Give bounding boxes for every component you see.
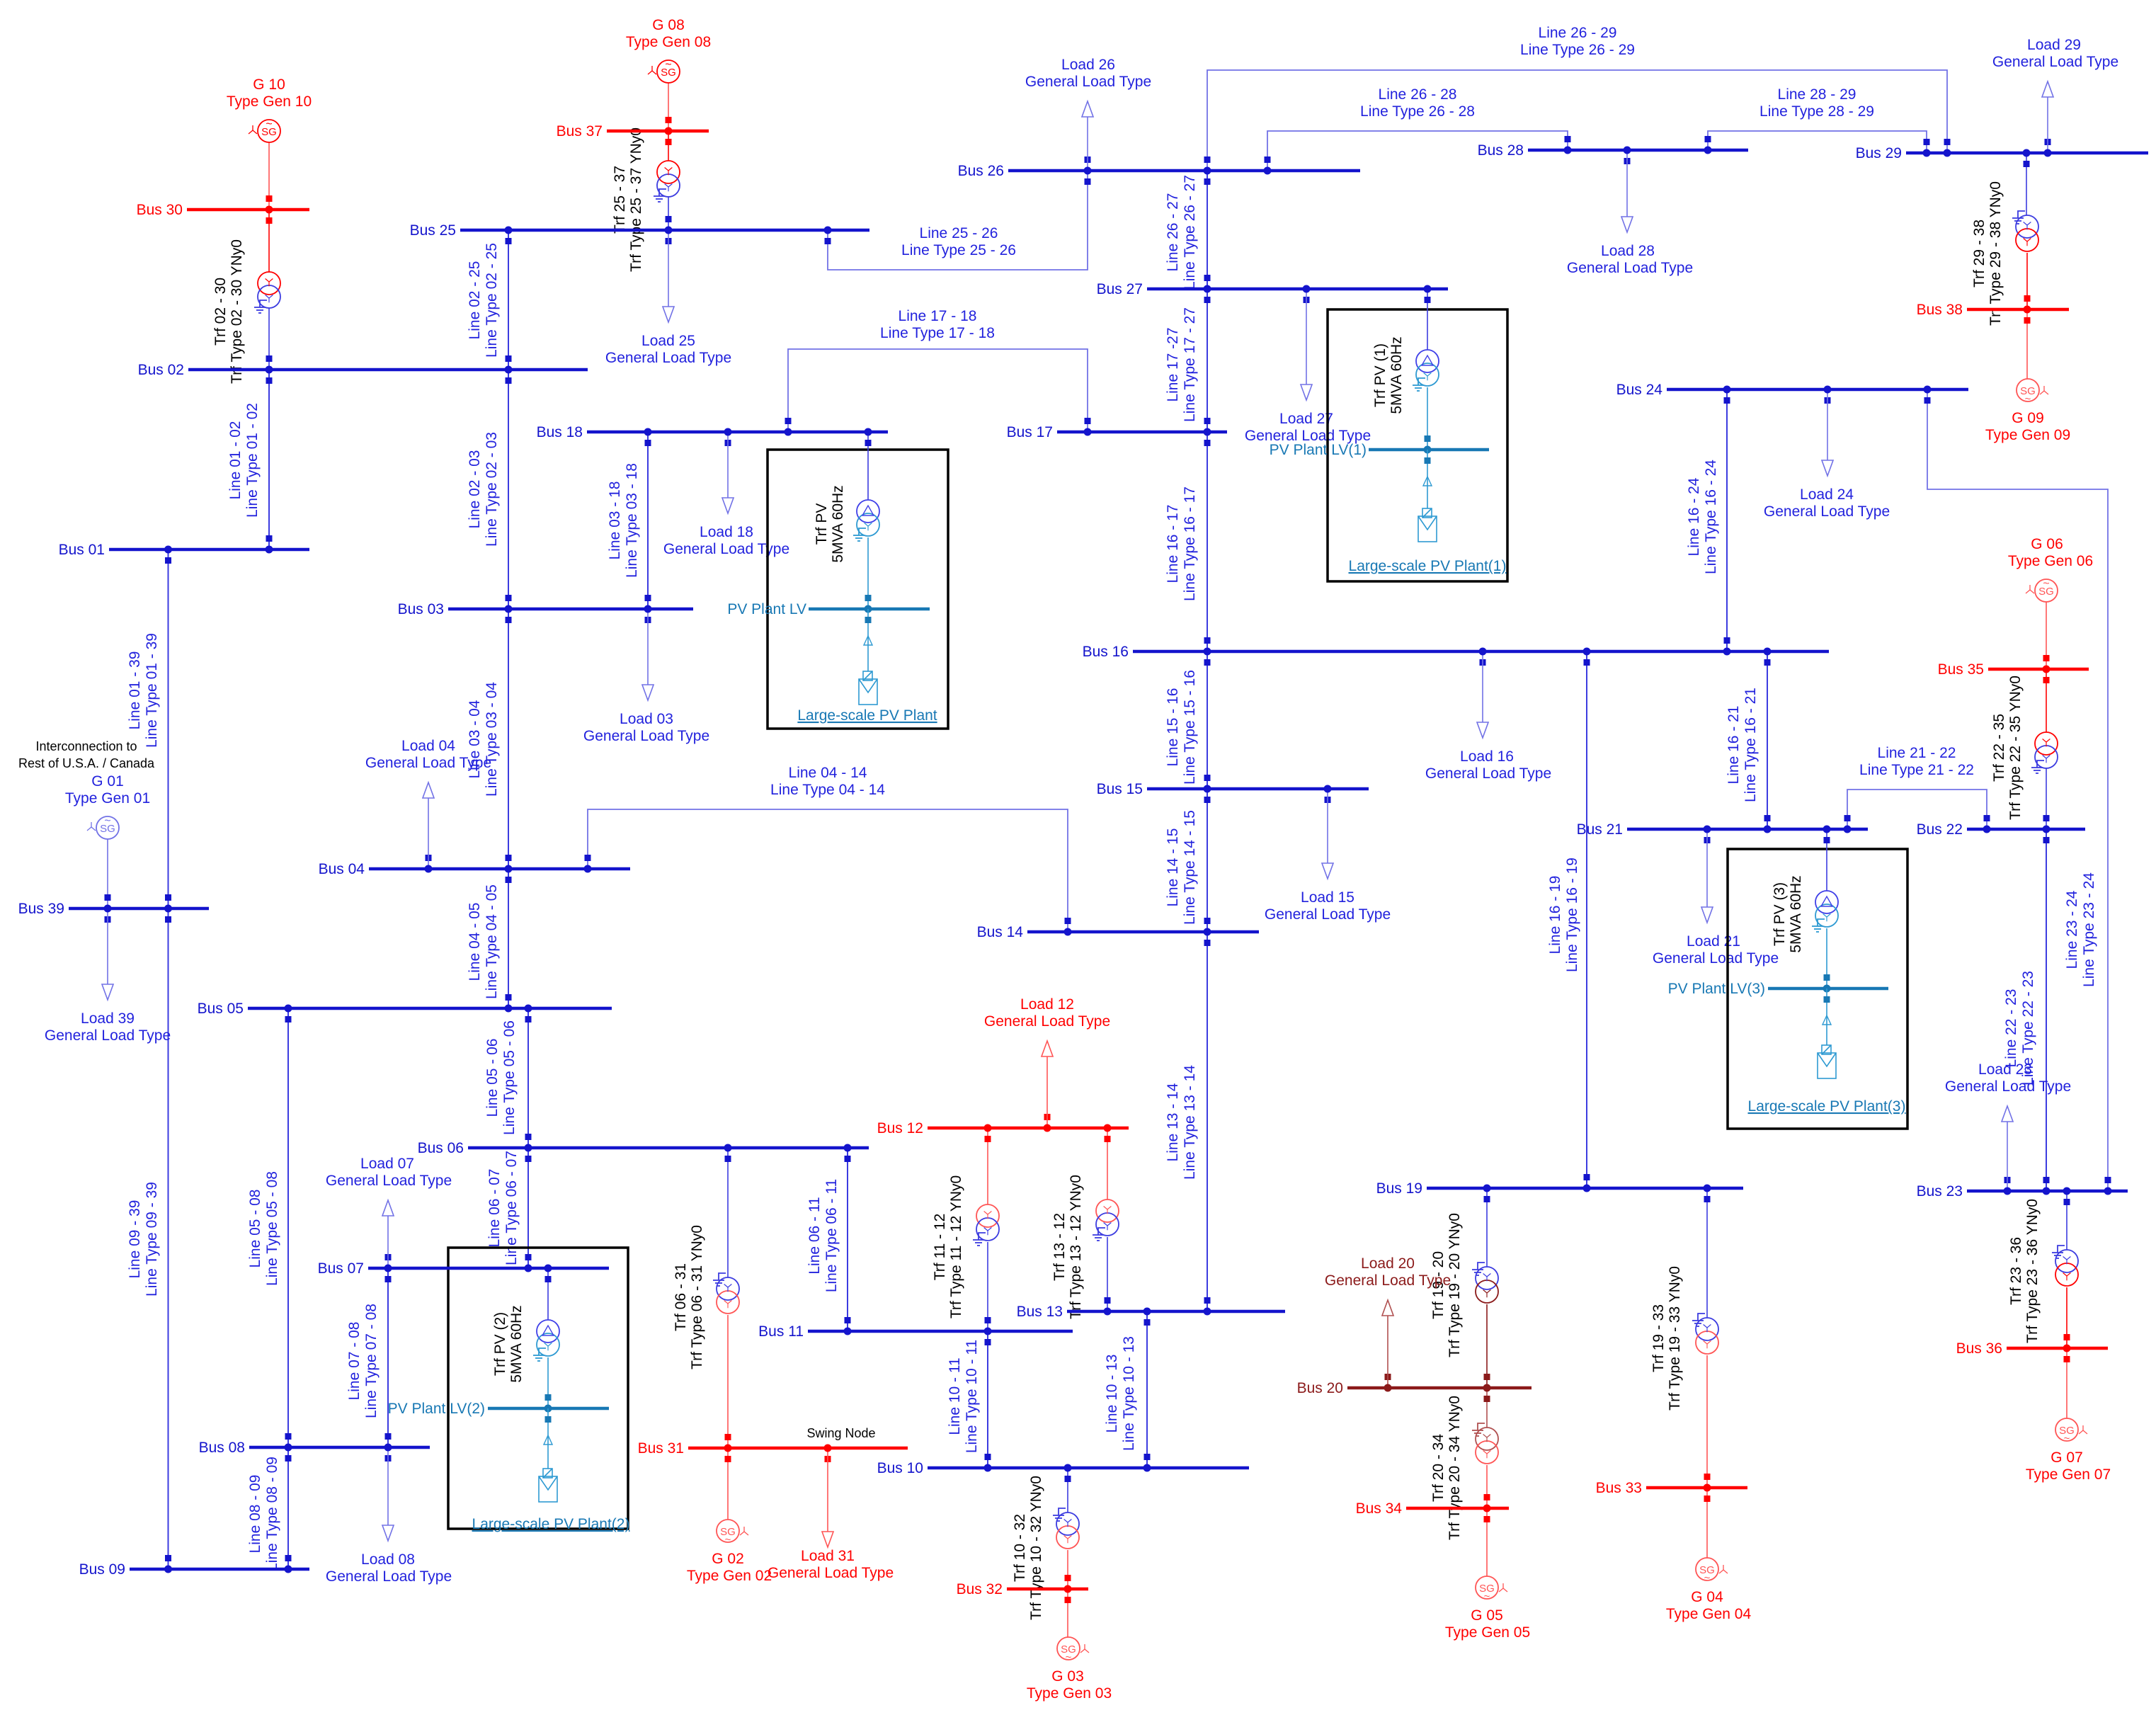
svg-text:Load 21: Load 21 [1687,933,1740,950]
generator G 03 [1027,1637,1112,1702]
load Load 18 [663,435,789,557]
load Load 16 [1425,654,1551,782]
svg-text:Bus 07: Bus 07 [318,1260,364,1277]
transformer Trf PV (3) [1815,891,1838,913]
transformer Trf 02 - 30 [212,239,280,384]
svg-text:Line Type 03 - 18: Line Type 03 - 18 [624,463,640,578]
wire Line 15 - 16 [1165,651,1211,789]
svg-text:Trf Type 29 - 38 YNy0: Trf Type 29 - 38 YNy0 [1987,181,2004,326]
svg-text:Line Type 16 - 21: Line Type 16 - 21 [1743,688,1759,802]
transformer Trf PV (2) [537,1320,559,1343]
wire Line 26 - 27 [1165,171,1211,290]
svg-text:~: ~ [2025,393,2031,405]
svg-text:Line 02 - 03: Line 02 - 03 [467,450,483,529]
wire Trf 23-36 to Bus 36 [2066,1287,2067,1348]
transformer Trf 19 - 33 [1650,1266,1718,1411]
svg-text:Line 16 - 17: Line 16 - 17 [1165,505,1181,583]
svg-text:Trf 10 - 32: Trf 10 - 32 [1012,1514,1028,1582]
svg-text:Line Type 26 - 27: Line Type 26 - 27 [1182,175,1198,290]
svg-text:G 07: G 07 [2051,1449,2083,1466]
svg-text:~: ~ [1066,1651,1072,1663]
bus Bus 36 [1956,1340,2108,1357]
wire Line 14 - 15 [1165,789,1211,932]
svg-text:Bus 39: Bus 39 [18,901,64,917]
wire Bus 23 to Trf 23-36 [2066,1191,2067,1250]
generator G 05 [1445,1576,1530,1641]
svg-text:General Load Type: General Load Type [1265,906,1391,923]
wire Line 23 - 24 [1924,389,2111,1191]
svg-text:Bus 06: Bus 06 [418,1140,464,1156]
svg-text:Line Type 28 - 29: Line Type 28 - 29 [1759,103,1874,120]
load Load 23 [1945,1061,2071,1188]
wire Line 16 - 17 [1165,432,1211,651]
PV plant box (3) [1728,849,1907,1129]
wire Line 26 - 28 [1265,86,1571,171]
svg-text:Bus 26: Bus 26 [958,163,1004,179]
svg-text:PV Plant LV(3): PV Plant LV(3) [1668,981,1765,997]
svg-text:G 02: G 02 [712,1551,744,1567]
bus Bus 35 [1938,661,2089,678]
svg-text:PV Plant LV(2): PV Plant LV(2) [388,1401,485,1417]
svg-text:Line 26 - 29: Line 26 - 29 [1539,25,1617,41]
svg-text:Line 22 - 23: Line 22 - 23 [2003,989,2019,1068]
svg-text:Load 31: Load 31 [801,1548,855,1564]
svg-text:Bus 28: Bus 28 [1478,142,1524,159]
svg-text:Bus 35: Bus 35 [1938,661,1984,678]
svg-text:General Load Type: General Load Type [365,755,491,771]
svg-text:Load 18: Load 18 [700,524,753,540]
generator G 01 [65,773,150,839]
load Load 08 [326,1450,452,1585]
bus PV Plant LV(1) [1369,448,1489,452]
load Load 03 [583,612,709,744]
svg-text:Line 05 - 08: Line 05 - 08 [247,1190,263,1268]
wire Trf 19-20 to Bus 20 [1486,1304,1488,1388]
transformer Trf 23 - 36 [2008,1199,2078,1343]
wire Bus 20 to Trf 20-34 [1486,1388,1488,1428]
wire Bus 10 to Trf 10-32 [1067,1468,1068,1512]
svg-text:Line Type 15 - 16: Line Type 15 - 16 [1182,670,1198,785]
svg-text:Line Type 09 - 39: Line Type 09 - 39 [144,1182,160,1297]
transformer Trf 10 - 32 [1012,1476,1079,1620]
transformer Trf 06 - 31 [673,1225,739,1369]
svg-text:Type Gen 04: Type Gen 04 [1666,1606,1752,1622]
load Load 07 [326,1156,452,1265]
svg-text:Type Gen 09: Type Gen 09 [1985,427,2070,443]
svg-text:Load 20: Load 20 [1361,1255,1415,1272]
wire Line 05 - 06 [484,1008,532,1148]
svg-text:Bus 13: Bus 13 [1017,1304,1063,1320]
svg-text:Trf Type 20 - 34 YNy0: Trf Type 20 - 34 YNy0 [1447,1396,1463,1540]
transformer Trf PV [857,500,879,523]
svg-text:Bus 23: Bus 23 [1917,1183,1963,1200]
svg-text:Line 04 - 14: Line 04 - 14 [789,765,867,781]
svg-text:General Load Type: General Load Type [1567,260,1693,276]
svg-text:Bus 36: Bus 36 [1956,1340,2002,1357]
svg-text:Line 07 - 08: Line 07 - 08 [346,1322,363,1401]
PV array [859,671,877,705]
svg-text:Line Type 02 - 25: Line Type 02 - 25 [484,243,500,358]
bus Bus 31 [638,1440,908,1457]
svg-text:PV Plant LV(1): PV Plant LV(1) [1270,442,1367,458]
svg-text:Line 14 - 15: Line 14 - 15 [1165,828,1181,907]
wire Bus 37 to Trf 25-37 [668,131,669,161]
svg-text:Line 04 - 05: Line 04 - 05 [467,903,483,981]
bus Bus 08 [199,1440,430,1456]
wire G08 to Bus 37 [668,83,669,131]
bus Bus 20 [1297,1380,1532,1396]
svg-text:Bus 34: Bus 34 [1356,1500,1403,1517]
wire Line 03 - 04 [467,609,512,869]
bus Bus 12 [877,1120,1129,1136]
svg-text:General Load Type: General Load Type [768,1565,894,1581]
svg-text:Large-scale PV Plant(3): Large-scale PV Plant(3) [1748,1098,1906,1115]
bus Bus 30 [137,202,309,218]
svg-text:Load 28: Load 28 [1601,243,1655,259]
svg-text:General Load Type: General Load Type [1764,503,1890,520]
transformer Trf 29 - 38 [1971,181,2038,326]
wire Line 09 - 39 [127,908,171,1569]
svg-text:Bus 37: Bus 37 [557,123,603,139]
svg-text:Trf Type 02 - 30 YNy0: Trf Type 02 - 30 YNy0 [229,239,245,384]
wire Line 13 - 14 [1165,932,1211,1311]
svg-text:Load 25: Load 25 [641,333,695,349]
svg-text:Trf Type 11 - 12 YNy0: Trf Type 11 - 12 YNy0 [948,1175,964,1318]
bus Bus 25 [410,222,869,239]
svg-text:Large-scale PV Plant(1): Large-scale PV Plant(1) [1349,558,1507,574]
svg-text:Bus 31: Bus 31 [638,1440,684,1457]
svg-text:Rest of U.S.A. / Canada: Rest of U.S.A. / Canada [18,756,155,770]
svg-text:Line 26 - 28: Line 26 - 28 [1379,86,1457,103]
svg-text:Line 15 - 16: Line 15 - 16 [1165,688,1181,767]
svg-text:~: ~ [1704,1572,1711,1584]
svg-text:Bus 03: Bus 03 [398,601,444,617]
svg-text:~: ~ [266,118,272,130]
svg-text:Load 27: Load 27 [1279,411,1333,427]
svg-text:Bus 14: Bus 14 [977,924,1024,940]
svg-text:Line Type 13 - 14: Line Type 13 - 14 [1182,1065,1198,1180]
svg-text:5MVA 60Hz: 5MVA 60Hz [1788,875,1804,952]
svg-text:General Load Type: General Load Type [1425,765,1551,782]
svg-text:Line 06 - 07: Line 06 - 07 [486,1169,503,1248]
bus Bus 37 [557,123,709,139]
wire Bus 34 to G05 [1486,1508,1488,1576]
PV plant box (1) [1328,309,1507,581]
svg-text:~: ~ [2064,1432,2070,1445]
wire Line 01 - 02 [227,370,273,549]
svg-text:Line Type 02 - 03: Line Type 02 - 03 [484,432,500,547]
PV plant box [768,450,948,729]
svg-text:Trf 23 - 36: Trf 23 - 36 [2008,1237,2024,1305]
load Load 04 [365,738,491,866]
svg-text:General Load Type: General Load Type [984,1013,1110,1030]
wire Line 16 - 21 [1726,651,1771,829]
svg-text:Type Gen 02: Type Gen 02 [687,1568,772,1584]
wire Trf PV (1) to LV bus [1427,387,1428,450]
wire Line 21 - 22 [1844,745,1990,829]
svg-text:General Load Type: General Load Type [1025,74,1151,90]
bus Bus 38 [1917,302,2069,318]
svg-text:G 06: G 06 [2031,536,2063,552]
load Load 15 [1265,792,1391,923]
wire Trf 11-12 to Bus 11 [987,1242,988,1331]
svg-text:Line Type 21 - 22: Line Type 21 - 22 [1859,762,1974,778]
svg-text:Bus 11: Bus 11 [758,1323,804,1340]
svg-text:Trf 06 - 31: Trf 06 - 31 [673,1263,689,1331]
load Load 28 [1567,153,1693,276]
svg-text:Line 10 - 13: Line 10 - 13 [1104,1355,1120,1433]
svg-text:Trf 13 - 12: Trf 13 - 12 [1051,1213,1068,1281]
wire bus to Trf PV (2) [547,1268,549,1320]
svg-text:Line Type 03 - 04: Line Type 03 - 04 [484,682,500,797]
svg-text:General Load Type: General Load Type [1945,1078,2071,1095]
PV array (1) [1418,508,1437,542]
wire Trf 10-32 to Bus 32 [1067,1550,1068,1589]
wire G01 to Bus 39 [107,839,108,908]
svg-text:Type Gen 07: Type Gen 07 [2026,1466,2111,1483]
wire bus to Trf PV (3) [1826,829,1827,891]
svg-text:Load 07: Load 07 [360,1156,414,1172]
wire Trf 20-34 to Bus 34 [1486,1465,1488,1508]
svg-text:Bus 17: Bus 17 [1007,424,1053,440]
svg-text:Bus 05: Bus 05 [198,1001,244,1017]
wire Trf PV to LV bus [867,537,869,609]
svg-text:Bus 21: Bus 21 [1577,821,1623,838]
svg-text:Line Type 06 - 11: Line Type 06 - 11 [823,1179,840,1292]
wire Line 25 - 26 [825,171,1091,270]
svg-text:General Load Type: General Load Type [326,1173,452,1189]
load Load 24 [1764,392,1890,520]
svg-text:Line Type 14 - 15: Line Type 14 - 15 [1182,810,1198,925]
svg-text:Load 39: Load 39 [81,1010,135,1027]
load Load 29 [1992,37,2118,150]
wire Line 07 - 08 [346,1268,392,1447]
wire Line 16 - 24 [1686,389,1730,651]
svg-text:Line Type 05 - 08: Line Type 05 - 08 [264,1171,280,1286]
svg-text:Trf Type 22 - 35 YNy0: Trf Type 22 - 35 YNy0 [2007,676,2024,820]
bus Bus 06 [418,1140,869,1156]
PV array (2) [539,1469,557,1502]
bus Bus 33 [1596,1480,1747,1496]
load Load 26 [1025,57,1151,168]
wire Bus 32 to G03 [1067,1589,1068,1637]
wire Bus 36 to G07 [2066,1348,2067,1418]
svg-text:G 04: G 04 [1691,1589,1723,1605]
generator G 02 [687,1520,772,1584]
wire Trf 19-33 to Bus 33 [1706,1355,1708,1488]
svg-text:Interconnection to: Interconnection to [35,739,137,753]
wire Trf 06-31 to Bus 31 [727,1315,729,1448]
load Load 31 [768,1451,894,1581]
svg-text:Load 23: Load 23 [1978,1061,2032,1078]
transformer Trf 19 - 20 [1430,1213,1498,1357]
bus Bus 07 [318,1260,609,1277]
svg-text:Trf 02 - 30: Trf 02 - 30 [212,278,229,346]
svg-text:General Load Type: General Load Type [663,541,789,557]
svg-text:Line 13 - 14: Line 13 - 14 [1165,1083,1181,1161]
svg-text:Large-scale PV Plant: Large-scale PV Plant [797,707,937,724]
bus Bus 13 [1017,1304,1285,1320]
svg-text:Trf Type 25 - 37 YNy0: Trf Type 25 - 37 YNy0 [628,127,644,272]
svg-text:Type Gen 01: Type Gen 01 [65,790,150,807]
svg-text:Trf Type 23 - 36 YNy0: Trf Type 23 - 36 YNy0 [2024,1199,2041,1343]
bus Bus 39 [18,901,209,917]
svg-text:PV Plant LV: PV Plant LV [727,601,806,617]
load Load 27 [1245,292,1371,444]
svg-text:Line Type 01 - 39: Line Type 01 - 39 [144,633,160,748]
wire Bus 35 to Trf 22-35 [2046,669,2047,732]
svg-text:General Load Type: General Load Type [326,1568,452,1585]
wire bus to Trf PV [867,432,869,500]
wire Line 17 - 18 [785,308,1091,432]
svg-text:Bus 09: Bus 09 [79,1561,125,1578]
wire Bus 31 to G02 [727,1448,729,1520]
load Load 39 [45,911,171,1044]
svg-text:Bus 08: Bus 08 [199,1440,245,1456]
svg-text:Type Gen 10: Type Gen 10 [227,93,312,110]
bus Bus 19 [1376,1180,1743,1197]
wire Line 22 - 23 [2003,829,2050,1191]
svg-text:Line 28 - 29: Line 28 - 29 [1778,86,1856,103]
svg-text:G 01: G 01 [91,773,124,790]
svg-text:Line Type 16 - 17: Line Type 16 - 17 [1182,486,1198,601]
svg-text:Line Type 26 - 29: Line Type 26 - 29 [1520,42,1635,58]
wire Line 26 - 29 [1204,25,1951,171]
bus Bus 01 [59,542,309,558]
svg-text:Bus 22: Bus 22 [1917,821,1963,838]
svg-text:Trf 11 - 12: Trf 11 - 12 [932,1214,948,1281]
svg-text:Trf PV (1): Trf PV (1) [1372,343,1388,407]
svg-text:Type Gen 03: Type Gen 03 [1027,1685,1112,1702]
bus Bus 22 [1917,821,2085,838]
bus Bus 04 [319,861,630,877]
bus Bus 27 [1097,281,1448,297]
wire Bus 12 to Trf 11-12 [987,1128,988,1204]
svg-text:G 08: G 08 [652,17,685,33]
svg-text:Line 21 - 22: Line 21 - 22 [1878,745,1956,761]
bus PV Plant LV(3) [1768,987,1888,991]
transformer Trf 13 - 12 [1051,1175,1119,1319]
transformer Trf 11 - 12 [932,1175,999,1318]
svg-text:Line Type 10 - 11: Line Type 10 - 11 [964,1340,980,1453]
svg-text:G 05: G 05 [1471,1607,1503,1624]
svg-text:~: ~ [2043,578,2049,590]
svg-text:Bus 12: Bus 12 [877,1120,923,1136]
svg-text:Trf 29 - 38: Trf 29 - 38 [1971,220,1987,287]
bus Bus 26 [958,163,1360,179]
bus Bus 29 [1856,145,2148,161]
PV array (3) [1818,1045,1836,1078]
svg-text:General Load Type: General Load Type [1992,54,2118,70]
svg-text:Type Gen 05: Type Gen 05 [1445,1624,1530,1641]
svg-text:General Load Type: General Load Type [605,350,731,366]
svg-text:Line Type 04 - 05: Line Type 04 - 05 [484,884,500,999]
wire Trf 22-35 to Bus 22 [2046,768,2047,829]
transformer Trf 25 - 37 [612,127,680,272]
svg-text:Bus 04: Bus 04 [319,861,365,877]
svg-text:Trf Type 13 - 12 YNy0: Trf Type 13 - 12 YNy0 [1068,1175,1084,1319]
load Load 21 [1653,832,1779,967]
svg-text:Bus 01: Bus 01 [59,542,105,558]
wire Line 17 - 27 [1165,289,1211,432]
svg-text:Bus 29: Bus 29 [1856,145,1902,161]
wire Line 06 - 11 [806,1148,851,1331]
wire Bus 12 to Trf 13-12 [1107,1128,1108,1200]
wire Bus 29 to Trf 29-38 [2026,153,2027,215]
svg-text:Load 15: Load 15 [1301,889,1354,906]
load Load 12 [984,996,1110,1125]
svg-text:General Load Type: General Load Type [45,1027,171,1044]
wire Line 05 - 08 [247,1008,292,1447]
svg-text:General Load Type: General Load Type [1653,950,1779,967]
wire Line 01 - 39 [127,549,171,908]
wire G06 to Bus 35 [2046,602,2047,669]
bus Bus 17 [1007,424,1227,440]
svg-text:Bus 18: Bus 18 [537,424,583,440]
wire Line 04 - 14 [585,765,1071,932]
wire bus to Trf PV (1) [1427,289,1428,350]
wire Line 06 - 07 [486,1148,532,1268]
bus Bus 14 [977,924,1259,940]
svg-text:G 09: G 09 [2012,410,2044,426]
svg-text:Line 16 - 21: Line 16 - 21 [1726,706,1742,785]
svg-text:Line 01 - 02: Line 01 - 02 [227,421,244,500]
svg-text:Trf Type 06 - 31 YNy0: Trf Type 06 - 31 YNy0 [689,1225,705,1369]
wire Trf 13-12 to Bus 13 [1107,1237,1108,1311]
bus Bus 02 [138,362,588,378]
transformer Trf PV (1) [1416,350,1439,372]
svg-text:Line 23 - 24: Line 23 - 24 [2064,890,2080,969]
bus Bus 16 [1083,644,1829,660]
wire Trf PV (2) to LV bus [547,1357,549,1408]
wire Line 10 - 11 [947,1331,991,1468]
generator G 06 [2008,536,2093,602]
svg-text:Line Type 08 - 09: Line Type 08 - 09 [264,1457,280,1571]
bus Bus 15 [1097,781,1369,797]
bus Bus 34 [1356,1500,1509,1517]
svg-text:~: ~ [665,59,671,71]
generator G 09 [1985,379,2070,443]
generator G 10 [227,76,312,142]
svg-text:Line Type 10 - 13: Line Type 10 - 13 [1121,1336,1137,1451]
svg-text:~: ~ [104,815,110,827]
svg-text:General Load Type: General Load Type [1325,1272,1451,1289]
bus Bus 03 [398,601,693,617]
svg-text:Line Type 17 - 18: Line Type 17 - 18 [880,325,995,341]
bus Bus 24 [1616,382,1968,398]
bus Bus 32 [957,1581,1088,1597]
bus Bus 28 [1478,142,1748,159]
bus Bus 11 [758,1323,1073,1340]
svg-text:Bus 38: Bus 38 [1917,302,1963,318]
svg-text:Bus 15: Bus 15 [1097,781,1143,797]
svg-text:Bus 16: Bus 16 [1083,644,1129,660]
svg-text:Swing Node: Swing Node [806,1426,875,1440]
load Load 20 [1325,1255,1451,1385]
svg-text:Line Type 01 - 02: Line Type 01 - 02 [244,403,261,518]
svg-text:Type Gen 08: Type Gen 08 [626,34,711,50]
wire Line 03 - 18 [607,432,651,609]
svg-text:Trf 20 - 34: Trf 20 - 34 [1430,1434,1447,1502]
svg-text:Line Type 05 - 06: Line Type 05 - 06 [501,1020,518,1135]
svg-text:Line 03 - 18: Line 03 - 18 [607,482,623,560]
svg-text:Trf Type 10 - 32 YNy0: Trf Type 10 - 32 YNy0 [1028,1476,1044,1620]
svg-text:Trf 25 - 37: Trf 25 - 37 [612,166,628,234]
bus Bus 05 [198,1001,612,1017]
svg-text:Load 03: Load 03 [620,711,673,727]
wire LV bus to PV array [867,609,869,671]
svg-text:General Load Type: General Load Type [583,728,709,744]
